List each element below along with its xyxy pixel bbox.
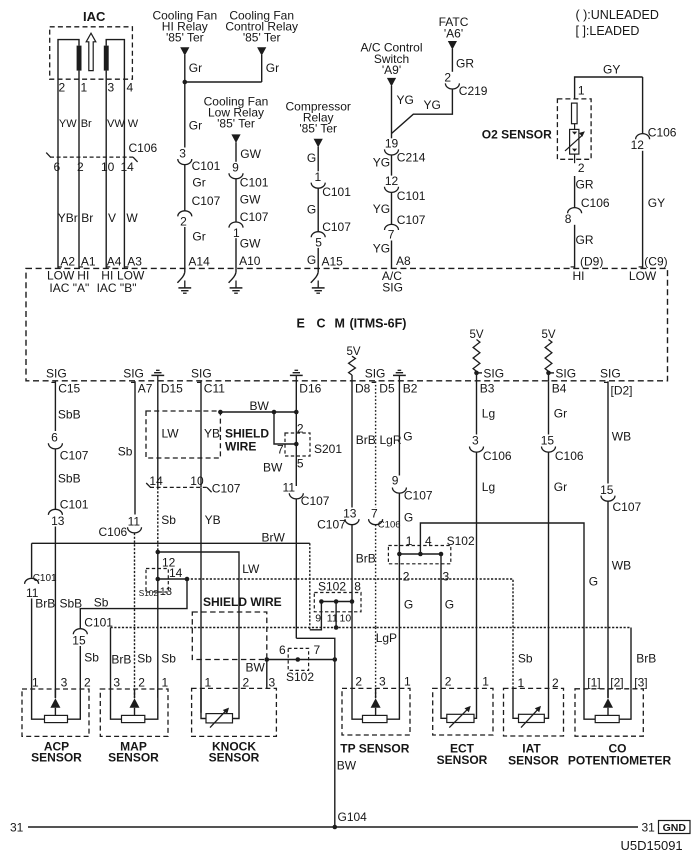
svg-text:SENSOR: SENSOR	[209, 750, 260, 764]
svg-text:Sb: Sb	[161, 652, 176, 666]
junction S102 pin 4	[418, 552, 423, 557]
connector C106 pin 7	[369, 506, 401, 530]
svg-text:1: 1	[404, 675, 411, 689]
wire Sb from A7	[118, 381, 135, 514]
svg-text:C101: C101	[240, 175, 269, 189]
connector C219 pin 2	[444, 71, 487, 98]
wire Sb into splice	[157, 552, 159, 579]
wire G	[307, 147, 318, 172]
pin labels IAC 2 1 3 4	[59, 81, 134, 95]
A/C SIG label	[382, 269, 403, 295]
svg-text:7: 7	[277, 443, 284, 457]
svg-text:C106: C106	[581, 196, 610, 210]
svg-text:[ ]:LEADED: [ ]:LEADED	[576, 24, 640, 38]
svg-text:2: 2	[444, 71, 451, 85]
wire BrW horizontal	[32, 531, 310, 545]
svg-text:C107: C107	[397, 213, 426, 227]
connector C101 pin 12	[385, 174, 426, 203]
svg-text:GW: GW	[240, 193, 261, 207]
svg-text:1: 1	[162, 676, 169, 690]
svg-text:C107: C107	[613, 500, 642, 514]
svg-text:BrB: BrB	[356, 552, 376, 566]
wire G to A15	[307, 248, 318, 269]
svg-text:4: 4	[425, 534, 432, 548]
wire GW to A10	[236, 236, 261, 268]
svg-text:[1]: [1]	[587, 676, 600, 690]
svg-text:C107: C107	[322, 220, 351, 234]
junction S102 pin 9	[319, 599, 324, 604]
O2 sensor pin 1	[578, 84, 585, 98]
connector C107 pin 15	[600, 483, 641, 514]
svg-text:IAC "B": IAC "B"	[97, 281, 137, 295]
ECM pin D5	[372, 382, 395, 396]
connector C107 pin 7	[385, 213, 426, 241]
svg-text:C107: C107	[192, 194, 221, 208]
svg-text:LW: LW	[242, 562, 260, 576]
ECM internal switch and ground at A15	[311, 268, 325, 293]
wire BrB from D8	[352, 381, 376, 507]
wire Br	[79, 157, 93, 268]
svg-text:15: 15	[600, 483, 614, 497]
svg-text:D8: D8	[355, 382, 371, 396]
splice S102 (9/11/10/8)	[314, 579, 361, 624]
IAC drive labels LOW HI / HI LOW	[47, 268, 145, 282]
svg-text:POTENTIOMETER: POTENTIOMETER	[568, 754, 672, 768]
ECT sensor	[433, 688, 493, 767]
ECT pins 2 1	[445, 675, 490, 689]
svg-text:C101: C101	[192, 159, 221, 173]
svg-text:LW: LW	[162, 427, 180, 441]
wire G to TP pin 1	[399, 554, 413, 628]
svg-text:M: M	[335, 316, 345, 330]
svg-text:2: 2	[403, 569, 410, 583]
wire YG	[373, 155, 392, 176]
svg-text:1: 1	[578, 84, 585, 98]
SHIELD WIRE label knock	[203, 595, 282, 609]
svg-text:(ITMS-6F): (ITMS-6F)	[350, 316, 407, 330]
ACP pins 1 3 2	[32, 676, 91, 690]
junction G104	[333, 810, 368, 829]
svg-text:1: 1	[406, 534, 413, 548]
svg-text:7: 7	[388, 227, 395, 241]
svg-text:14: 14	[121, 160, 135, 174]
O2 sensor pin 2	[575, 154, 585, 175]
svg-text:C107: C107	[404, 489, 433, 503]
svg-text:3: 3	[379, 675, 386, 689]
svg-text:5: 5	[315, 236, 322, 250]
svg-text:SIG: SIG	[555, 366, 576, 380]
svg-text:YW: YW	[59, 118, 77, 130]
svg-text:6: 6	[54, 160, 61, 174]
A/C Control Switch 'A9'	[360, 41, 422, 87]
BW label	[246, 661, 266, 675]
svg-text:'85' Ter: '85' Ter	[217, 116, 255, 130]
IAC idle air control actuator	[50, 9, 133, 79]
ECM pin C11	[197, 382, 225, 396]
svg-text:YBr: YBr	[58, 211, 78, 225]
svg-text:A14: A14	[188, 255, 210, 269]
CO potentiometer	[568, 689, 672, 768]
svg-text:13: 13	[51, 514, 65, 528]
svg-text:3: 3	[472, 434, 479, 448]
ECM pin A7	[131, 382, 153, 396]
svg-text:C15: C15	[58, 382, 80, 396]
svg-text:SHIELD WIRE: SHIELD WIRE	[203, 595, 282, 609]
svg-text:SIG: SIG	[483, 366, 504, 380]
svg-text:13: 13	[160, 586, 172, 598]
junction S102 pin 12	[156, 550, 176, 570]
LOW label at C9	[629, 269, 657, 283]
svg-text:W: W	[128, 118, 139, 130]
svg-text:LgR: LgR	[380, 433, 402, 447]
svg-text:VW: VW	[107, 118, 125, 130]
svg-text:GW: GW	[240, 147, 261, 161]
IAT sensor	[504, 688, 564, 767]
svg-text:C107: C107	[301, 494, 330, 508]
SIG label D8	[365, 366, 386, 380]
svg-text:( ):UNLEADED: ( ):UNLEADED	[576, 8, 659, 22]
splice row	[399, 553, 441, 555]
svg-text:V: V	[108, 211, 116, 225]
connector C101 pin 3	[178, 147, 221, 173]
svg-text:3: 3	[113, 676, 120, 690]
wire Sb lower	[80, 646, 99, 689]
wire LW branch	[158, 552, 260, 688]
svg-text:G: G	[307, 253, 316, 267]
wire G to ECT pin 2	[441, 554, 454, 688]
svg-text:BrB: BrB	[636, 652, 656, 666]
svg-text:1: 1	[32, 676, 39, 690]
junction BrB rail	[334, 625, 339, 630]
wire Br	[79, 87, 92, 158]
svg-text:Gr: Gr	[554, 480, 567, 494]
wire YG joining A/C switch line	[392, 89, 453, 134]
connector C106 pin 12	[631, 126, 677, 152]
svg-text:Gr: Gr	[554, 406, 567, 420]
svg-text:Sb: Sb	[94, 596, 109, 610]
wire Gr to A14	[185, 227, 206, 268]
svg-text:2: 2	[243, 676, 250, 690]
drawing number U5D15091	[621, 838, 683, 853]
wire BW down	[295, 499, 297, 638]
wire BrB to TP pin 2	[351, 602, 353, 689]
GND box	[659, 821, 691, 834]
svg-text:Sb: Sb	[161, 513, 176, 527]
KNOCK pins 1 2 3	[205, 676, 276, 690]
ECM internal switch and ground at A10	[229, 268, 243, 293]
ECM pin B4	[552, 382, 567, 396]
svg-text:SbB: SbB	[60, 597, 83, 611]
svg-text:G: G	[403, 430, 412, 444]
connector C214 pin 19	[385, 137, 426, 165]
svg-text:3: 3	[443, 569, 450, 583]
svg-text:A2: A2	[60, 255, 75, 269]
svg-text:'85' Ter: '85' Ter	[166, 31, 204, 45]
svg-text:G: G	[404, 511, 413, 525]
wire YW	[58, 87, 77, 158]
splice row 9-11-10	[321, 601, 352, 603]
svg-text:'85' Ter: '85' Ter	[243, 31, 281, 45]
svg-text:YG: YG	[373, 155, 390, 169]
splice S102 (1/4/2/3)	[388, 534, 475, 583]
svg-text:Gr: Gr	[189, 61, 202, 75]
svg-text:G104: G104	[338, 810, 368, 824]
wire V	[106, 157, 116, 268]
svg-text:C106: C106	[555, 449, 584, 463]
TP sensor	[340, 688, 410, 755]
wire YG to A8	[373, 241, 392, 269]
wire LW from D15	[157, 381, 159, 487]
wire G from B2	[399, 381, 412, 475]
svg-text:GR: GR	[456, 57, 474, 71]
svg-text:C101: C101	[84, 616, 113, 630]
KNOCK sensor	[192, 688, 277, 764]
connector C101 pin 1	[311, 170, 351, 199]
svg-text:2: 2	[355, 675, 362, 689]
wire Sb splice row	[158, 578, 187, 580]
svg-text:6: 6	[51, 431, 58, 445]
wire SbB from C15	[55, 381, 80, 431]
svg-text:G: G	[445, 598, 454, 612]
wire BrB to MAP pin 3	[111, 628, 132, 690]
svg-text:2: 2	[84, 676, 91, 690]
TP pins 2 3 1	[355, 675, 411, 689]
ECM pin A8	[396, 254, 411, 268]
wire LgP to TP pin 3	[376, 628, 397, 698]
SIG label C15	[46, 367, 67, 381]
svg-text:C106: C106	[483, 449, 512, 463]
svg-text:'85' Ter: '85' Ter	[299, 121, 337, 135]
svg-text:Gr: Gr	[192, 176, 205, 190]
svg-text:SbB: SbB	[58, 408, 81, 422]
svg-text:GR: GR	[576, 178, 594, 192]
CO pot pins [1] [2] [3]	[587, 676, 647, 690]
ECM pins A2 A1 A4 A3	[58, 255, 142, 269]
junction S102 pin 10	[350, 599, 355, 604]
svg-text:8: 8	[565, 212, 572, 226]
ECM label E C M (ITMS-6F)	[297, 316, 407, 330]
SHIELD WIRE label	[225, 426, 269, 453]
connector C107 pin 2	[178, 194, 221, 229]
svg-text:5V: 5V	[346, 346, 360, 358]
svg-text:Br: Br	[81, 118, 92, 130]
S102 pin 8 label	[354, 579, 361, 593]
junction and SIG at B3	[474, 366, 504, 380]
svg-text:D15: D15	[161, 382, 183, 396]
ECM pin [D2]	[604, 382, 633, 397]
splice S102 (6/7)	[279, 643, 321, 684]
wire BW to ground G104	[335, 660, 357, 828]
wire W	[124, 157, 138, 268]
svg-text:G: G	[307, 203, 316, 217]
svg-text:HI: HI	[573, 269, 585, 283]
svg-text:2: 2	[59, 81, 66, 95]
wire to control relay	[185, 81, 262, 83]
svg-text:19: 19	[385, 137, 399, 151]
svg-text:A8: A8	[396, 254, 411, 268]
wire Gr	[185, 165, 206, 211]
svg-text:C106: C106	[648, 126, 677, 140]
splice S102 (12/13/14)	[139, 569, 172, 599]
svg-text:D5: D5	[379, 382, 395, 396]
connector C107 pin 13	[317, 506, 359, 531]
FATC 'A6'	[439, 15, 469, 49]
junction S102 pin 3	[439, 552, 444, 557]
wire GR	[575, 176, 594, 208]
svg-text:9: 9	[392, 474, 399, 488]
svg-text:10: 10	[190, 474, 204, 488]
wire BW to S201 pin 7	[274, 412, 296, 457]
svg-text:3: 3	[61, 676, 68, 690]
svg-text:IAC "A": IAC "A"	[49, 281, 89, 295]
ECM internal ground at D15	[151, 370, 164, 381]
svg-text:LOW: LOW	[629, 269, 657, 283]
junction S102 pin 11	[334, 599, 339, 604]
junction on D16 wire	[294, 410, 299, 415]
ECM pin C15	[51, 382, 80, 396]
svg-text:GND: GND	[663, 822, 687, 834]
svg-text:C106: C106	[129, 141, 158, 155]
ECM internal ground at D16	[290, 370, 303, 381]
wire Gr to IAT pin 2	[549, 452, 568, 688]
wire GY top	[575, 63, 643, 99]
svg-text:GY: GY	[603, 63, 620, 77]
5V pull-up resistor at B4	[541, 329, 555, 381]
ECM internal ground at B2	[393, 370, 406, 381]
svg-text:WIRE: WIRE	[225, 439, 256, 453]
svg-text:SIG: SIG	[365, 366, 386, 380]
IAC "A" IAC "B" labels	[49, 281, 136, 295]
wire G lower	[398, 628, 400, 689]
svg-text:WB: WB	[612, 429, 631, 443]
svg-text:SENSOR: SENSOR	[31, 750, 82, 764]
svg-text:G: G	[307, 151, 316, 165]
5V pull-up resistor at B3	[469, 329, 483, 381]
svg-text:S102: S102	[318, 579, 346, 593]
wire BW jog to G104 drop	[296, 638, 335, 659]
wire S102 pin 11 to BrB rail	[335, 602, 337, 628]
connector C106 (IAC)	[46, 141, 157, 174]
ECM pin (C9)	[644, 254, 667, 268]
svg-text:TP SENSOR: TP SENSOR	[340, 742, 409, 756]
wire IAC pin3	[105, 71, 107, 87]
svg-text:5: 5	[297, 457, 304, 471]
svg-text:Sb: Sb	[137, 652, 152, 666]
connector C107 pin 1	[229, 210, 269, 240]
splice S201	[285, 422, 342, 457]
svg-text:Sb: Sb	[84, 651, 99, 665]
MAP pins 3 2 1	[113, 676, 168, 690]
connector C106 pin 15	[541, 434, 584, 463]
svg-text:GW: GW	[240, 236, 261, 250]
junction S201	[294, 442, 299, 447]
svg-text:3: 3	[179, 147, 186, 161]
svg-text:[2]: [2]	[610, 676, 623, 690]
wire LgR from D5	[376, 381, 402, 507]
svg-text:C106: C106	[99, 525, 128, 539]
svg-text:B4: B4	[552, 382, 567, 396]
svg-text:E: E	[297, 316, 305, 330]
svg-text:6: 6	[279, 643, 286, 657]
ECM pin D16	[299, 382, 321, 396]
ECM pin D15	[161, 382, 183, 396]
wire D16 to BW	[295, 381, 297, 412]
svg-text:G: G	[404, 598, 413, 612]
ECM pin (D9)	[580, 254, 603, 268]
wire IAC pin4	[106, 40, 124, 87]
shield wire box LW	[146, 411, 220, 458]
svg-text:YB: YB	[205, 513, 221, 527]
svg-text:A3: A3	[127, 255, 142, 269]
svg-text:BrB: BrB	[111, 653, 131, 667]
svg-text:10: 10	[101, 160, 115, 174]
ground rail 31	[10, 821, 655, 835]
legend leaded	[576, 24, 640, 38]
ECM pin A15	[322, 255, 344, 269]
wire YB to knock pin 1	[201, 487, 221, 712]
svg-text:1: 1	[482, 675, 489, 689]
wire shield to knock pin 3	[266, 660, 268, 689]
wire GY right	[642, 77, 644, 134]
svg-text:2: 2	[297, 422, 304, 436]
svg-text:9: 9	[232, 161, 239, 175]
svg-text:S102: S102	[447, 534, 475, 548]
svg-text:11: 11	[283, 481, 296, 495]
wire BrW vertical to C101	[31, 543, 33, 577]
wire G to S102 pin 1	[399, 493, 413, 554]
wire G	[307, 188, 318, 232]
svg-text:C101: C101	[33, 573, 57, 584]
connector C107 pin 5	[311, 220, 351, 250]
connector C106 pin 8	[565, 196, 610, 226]
wire IAC pin1	[78, 71, 80, 87]
svg-text:SENSOR: SENSOR	[508, 754, 559, 768]
svg-text:BrW: BrW	[262, 531, 286, 545]
svg-text:1: 1	[205, 676, 212, 690]
wire Sb to ACP pin 2	[80, 579, 187, 628]
wire IAC pin2	[58, 40, 79, 87]
svg-text:2: 2	[180, 215, 187, 229]
svg-text:[3]: [3]	[634, 676, 647, 690]
svg-text:GR: GR	[576, 233, 594, 247]
svg-text:BrB: BrB	[356, 433, 376, 447]
wire Gr from HI relay	[185, 55, 202, 82]
ECM pin A10	[239, 254, 261, 268]
connector C107 pin 11	[283, 481, 330, 508]
wire S102 pin 9 to BrW	[310, 602, 322, 630]
svg-text:BrB: BrB	[35, 597, 55, 611]
svg-text:SENSOR: SENSOR	[437, 753, 488, 767]
wire Gr from B4	[549, 381, 568, 434]
svg-text:[D2]: [D2]	[611, 383, 633, 397]
svg-text:BW: BW	[250, 399, 270, 413]
svg-text:12: 12	[631, 138, 645, 152]
connector C107 pins 14 10	[146, 474, 241, 495]
svg-text:YB: YB	[204, 427, 220, 441]
wire GR to D9	[571, 225, 594, 269]
svg-text:31: 31	[10, 821, 24, 835]
svg-text:C106: C106	[378, 519, 401, 530]
svg-text:YG: YG	[424, 98, 441, 112]
Compressor Relay '85' Ter	[286, 99, 351, 147]
svg-text:15: 15	[541, 434, 555, 448]
wire SbB to ACP pin 3	[55, 527, 82, 698]
wire SbB	[55, 449, 80, 509]
svg-text:14: 14	[149, 474, 163, 488]
SIG label A7	[123, 367, 144, 381]
svg-text:Br: Br	[81, 211, 93, 225]
wire BW splice	[267, 659, 298, 661]
